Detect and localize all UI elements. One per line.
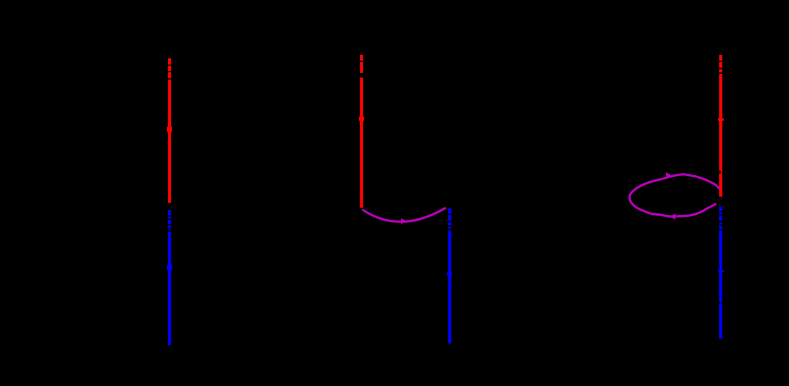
panel 3: loop top arrow (pointing right) [666,172,672,179]
panel 1: red arrow [167,126,172,132]
panel 3: blue arrow [718,270,725,272]
panel 2: blue string segment [448,208,451,343]
panel 3: loop bottom arrow (pointing left) [670,214,676,220]
panel 3: magenta loop around string (open at right where it meets the string) [630,174,720,216]
panel 1: blue arrow [167,265,172,271]
panel 2: magenta curve arrow [401,218,406,224]
panel 3: notch in blue line [719,303,721,305]
panel 2: magenta reconnection curve [362,208,446,222]
panel 2: blue arrow [447,272,452,276]
panel 3: gap in red where loop passes behind [718,171,721,174]
panel 3: blue string segment [719,207,722,339]
panel 3: red arrow [718,118,724,121]
panel 1: red string upper segment (dashed at infinity, solid below) [168,58,171,203]
panel 3: red string segment [719,55,722,197]
panel 2: red string segment [360,55,363,208]
panel 1: blue string lower segment (dashed near junction, solid below) [168,210,171,345]
panel 2: red arrow [359,117,364,122]
